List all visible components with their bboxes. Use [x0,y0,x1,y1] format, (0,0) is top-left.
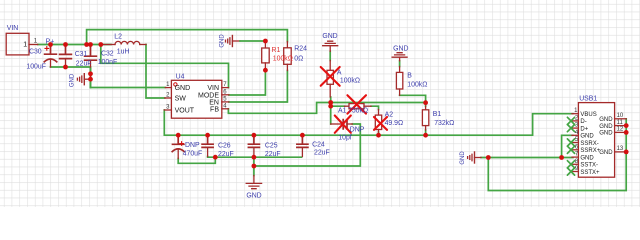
pin 11 GND USB1 [615,125,627,127]
connector VIN [6,33,38,55]
wire top rail C32 to R24 [87,30,288,45]
svg-text:732kΩ: 732kΩ [434,120,454,127]
wire DNP470 jog [178,157,215,163]
pin 6 SSRX+ USB1 [572,149,578,151]
svg-text:R24: R24 [294,46,307,53]
wire GND node to U4 pin1 [91,87,166,89]
svg-text:SSRX-: SSRX- [580,141,598,147]
capacitor C32 [85,45,97,69]
svg-text:VOUT: VOUT [175,108,195,115]
svg-text:SSRX+: SSRX+ [580,148,600,154]
no-connect X pin3 USB1 [567,125,574,132]
wire node FB to capacitor DNP left [330,106,332,124]
junction C25 bottom [252,155,257,160]
wire GND stub to R1 top [240,40,265,42]
no-connect X pin8 USB1 [567,161,574,168]
junction B1 top [423,100,428,105]
svg-text:470uF: 470uF [183,150,203,157]
pin 7 VIN U4 [222,87,229,89]
junction C24 top rail [300,133,305,138]
wire VIN input to caps [38,44,111,46]
svg-text:FB: FB [210,106,219,113]
pin 3 Dplus USB1 [572,127,578,129]
svg-text:USB1: USB1 [579,96,597,103]
resistor A2 [375,110,381,133]
capacitor C30 [44,45,56,68]
pin 8 SSTX- USB1 [572,163,578,165]
wire U4 pin4 FB to node FB [228,103,330,114]
svg-text:C24: C24 [312,141,325,148]
svg-text:MODE: MODE [198,92,219,99]
pin 2 SW U4 [165,97,172,99]
pin 3 VOUT U4 [164,109,171,111]
svg-text:GND: GND [322,33,337,40]
svg-text:GND: GND [175,85,191,92]
pin 7 GND USB1 [572,156,578,158]
svg-text:L2: L2 [114,33,122,40]
DNP cross capacitor 10pF [335,116,351,133]
junction GND node lower [88,77,93,82]
svg-text:22uF: 22uF [218,151,234,158]
connector USB1 body [578,103,614,178]
svg-text:D+: D+ [580,126,588,132]
resistor B [396,67,402,96]
svg-text:0Ω: 0Ω [294,56,303,63]
svg-text:GND: GND [246,193,261,200]
junction B1 bottom rail [423,133,428,138]
svg-text:VBUS: VBUS [580,112,596,118]
no-connect X pin9 USB1 [567,168,574,175]
node FB upper junction [328,100,333,105]
capacitor DNP 10pF [331,120,353,129]
svg-text:100kΩ: 100kΩ [273,55,293,62]
wire VOUT rail U4 pin3 to USB VBUS [164,110,573,135]
pin 12 GND USB1 [615,131,627,133]
capacitor C25 [248,135,259,156]
pin 1 VBUS USB1 [572,113,578,115]
junction C31 top [63,42,68,47]
wire U4 pin6 MODE to R1 bottom [229,70,266,95]
wire capacitor DNP right to GND branch [254,124,360,166]
svg-text:C26: C26 [218,143,231,150]
wire node FB to A1 left [331,103,345,107]
junction VIN net drop [98,42,103,47]
svg-text:GND: GND [599,117,613,123]
junction GND node upper [88,71,93,76]
svg-text:100nF: 100nF [98,59,118,66]
no-connect X pin5 USB1 [567,139,574,146]
DNP cross resistor A2 [374,117,387,130]
plus sign C30 [45,47,49,51]
wire USB GND net [481,119,626,191]
ground GND below C25 [246,176,261,189]
wire B1 leads [425,103,427,136]
junction C32 top [88,42,93,47]
svg-text:SSTX-: SSTX- [580,163,598,169]
svg-text:GND: GND [393,45,408,52]
resistor R1 [262,41,270,70]
wire caps bottom row [208,156,302,159]
junction DNP470 jog bottom row [213,155,218,160]
wire GND to resistor A [329,51,331,60]
junction R1 bottom [263,68,268,73]
op-amp U4 ic body [171,80,221,118]
svg-text:100kΩ: 100kΩ [407,81,427,88]
capacitor C31 [60,45,72,68]
svg-text:C31: C31 [75,51,88,58]
wire U4 pin5 EN to R24 bottom [229,71,288,103]
wire VIN net to U4 pin7 [101,45,229,88]
wire resistor B GND stub [399,61,401,67]
svg-text:11: 11 [617,120,624,126]
junction USB GND left [486,155,491,160]
wire A2 bottom to VOUT rail [378,132,380,135]
DNP cross resistor A1 [347,95,366,113]
wire junction link red [90,74,92,79]
svg-text:GND: GND [460,151,466,165]
resistor A [327,61,333,98]
svg-text:D-: D- [580,119,586,125]
svg-text:SSTX+: SSTX+ [580,170,600,176]
svg-text:750kΩ: 750kΩ [348,108,368,115]
svg-text:U4: U4 [176,74,185,81]
DNP cross resistor A [321,67,340,86]
pin 5 SSRX- USB1 [572,142,578,144]
wire GND node lower green [90,79,92,87]
svg-text:100uF: 100uF [26,63,46,70]
wire node FB through to B1 top [331,102,426,104]
node P+ junction C30 [48,42,53,47]
svg-text:GND: GND [599,131,613,137]
inductor L2 [104,41,147,44]
ground GND near R1 [226,36,241,47]
ground GND near USB [468,152,481,163]
pin 4 GND USB1 [572,134,578,136]
wire C25 GND tap [253,157,255,175]
svg-text:SW: SW [175,96,187,103]
svg-text:B: B [407,72,412,79]
ground GND left of C32 [77,74,90,85]
junction USB pin13 [624,150,629,155]
svg-text:22uF: 22uF [265,151,281,158]
junction USB pin11 [624,123,629,128]
pin 10 GND USB1 [615,118,627,120]
junction R1 top [263,39,268,44]
capacitor C26 [202,135,213,156]
junction C25 top rail [252,133,257,138]
junction C26 top rail [205,133,210,138]
svg-text:GND: GND [599,124,613,130]
junction A2 bottom rail [376,133,381,138]
svg-text:VIN: VIN [7,25,19,32]
pin 4 FB U4 [222,108,229,110]
svg-text:GND: GND [599,150,613,156]
plus sign DNP470 [180,142,184,146]
junction DNP470 top rail [176,133,181,138]
wire resistor A to node FB [330,97,332,103]
junction GND branch [252,164,257,169]
svg-text:GND: GND [219,34,225,48]
wire resistor B bottom to B1 top [400,95,426,102]
pin 6 MODE U4 [222,94,229,96]
resistor A1 [345,104,372,109]
svg-text:100kΩ: 100kΩ [340,78,360,85]
no-connect X pin6 USB1 [567,146,574,153]
svg-text:22uF: 22uF [314,150,330,157]
svg-text:1: 1 [23,42,27,49]
junction USB pin12 [624,130,629,135]
svg-text:A1: A1 [338,108,347,115]
junction USB GND pin4 tap [559,155,564,160]
resistor R24 [284,42,292,71]
svg-text:DNP: DNP [350,127,365,134]
svg-text:49.9Ω: 49.9Ω [385,120,404,127]
node FB lower junction [328,104,333,109]
svg-text:VIN: VIN [207,85,219,92]
svg-text:C32: C32 [101,51,114,58]
ground GND above resistor A [323,40,338,52]
capacitor C24 [297,135,308,156]
pin 1 GND U4 [165,87,171,89]
svg-text:P+: P+ [46,38,55,45]
capacitor DNP 470uF [172,135,184,158]
pin 5 EN U4 [222,101,229,103]
pin1 indicator dot U4 [174,83,177,86]
wire A1 right to A2 top [371,106,379,109]
pin 9 SSTX+ USB1 [572,171,578,173]
junction C31 bottom [63,65,68,70]
svg-text:10pf: 10pf [338,135,351,142]
wire L2 to U4 pin2 SW [146,45,165,99]
ground GND above resistor B [392,53,407,61]
svg-text:GND: GND [580,134,594,140]
svg-text:B1: B1 [433,111,442,118]
wire C30 C31 bottom to GND node [51,67,91,88]
svg-text:DNP: DNP [185,142,200,149]
svg-text:A2: A2 [385,112,394,119]
resistor B1 [422,106,428,130]
svg-text:22uF: 22uF [76,60,92,67]
svg-text:10: 10 [617,113,624,119]
wire C32 bottom green segment [90,69,92,74]
no-connect X pin2 USB1 [567,117,574,124]
svg-text:GND: GND [580,155,594,161]
svg-text:GND: GND [69,73,75,87]
pin 2 Dminus USB1 [572,120,578,122]
junction top rail drop [84,42,89,47]
svg-text:C30: C30 [29,48,42,55]
svg-text:C25: C25 [265,143,278,150]
pin 13 GND USB1 [615,151,627,153]
svg-text:13: 13 [617,146,624,152]
svg-text:A: A [337,70,342,77]
svg-text:1uH: 1uH [117,48,130,55]
svg-text:R1: R1 [272,47,281,54]
svg-text:12: 12 [617,127,624,133]
